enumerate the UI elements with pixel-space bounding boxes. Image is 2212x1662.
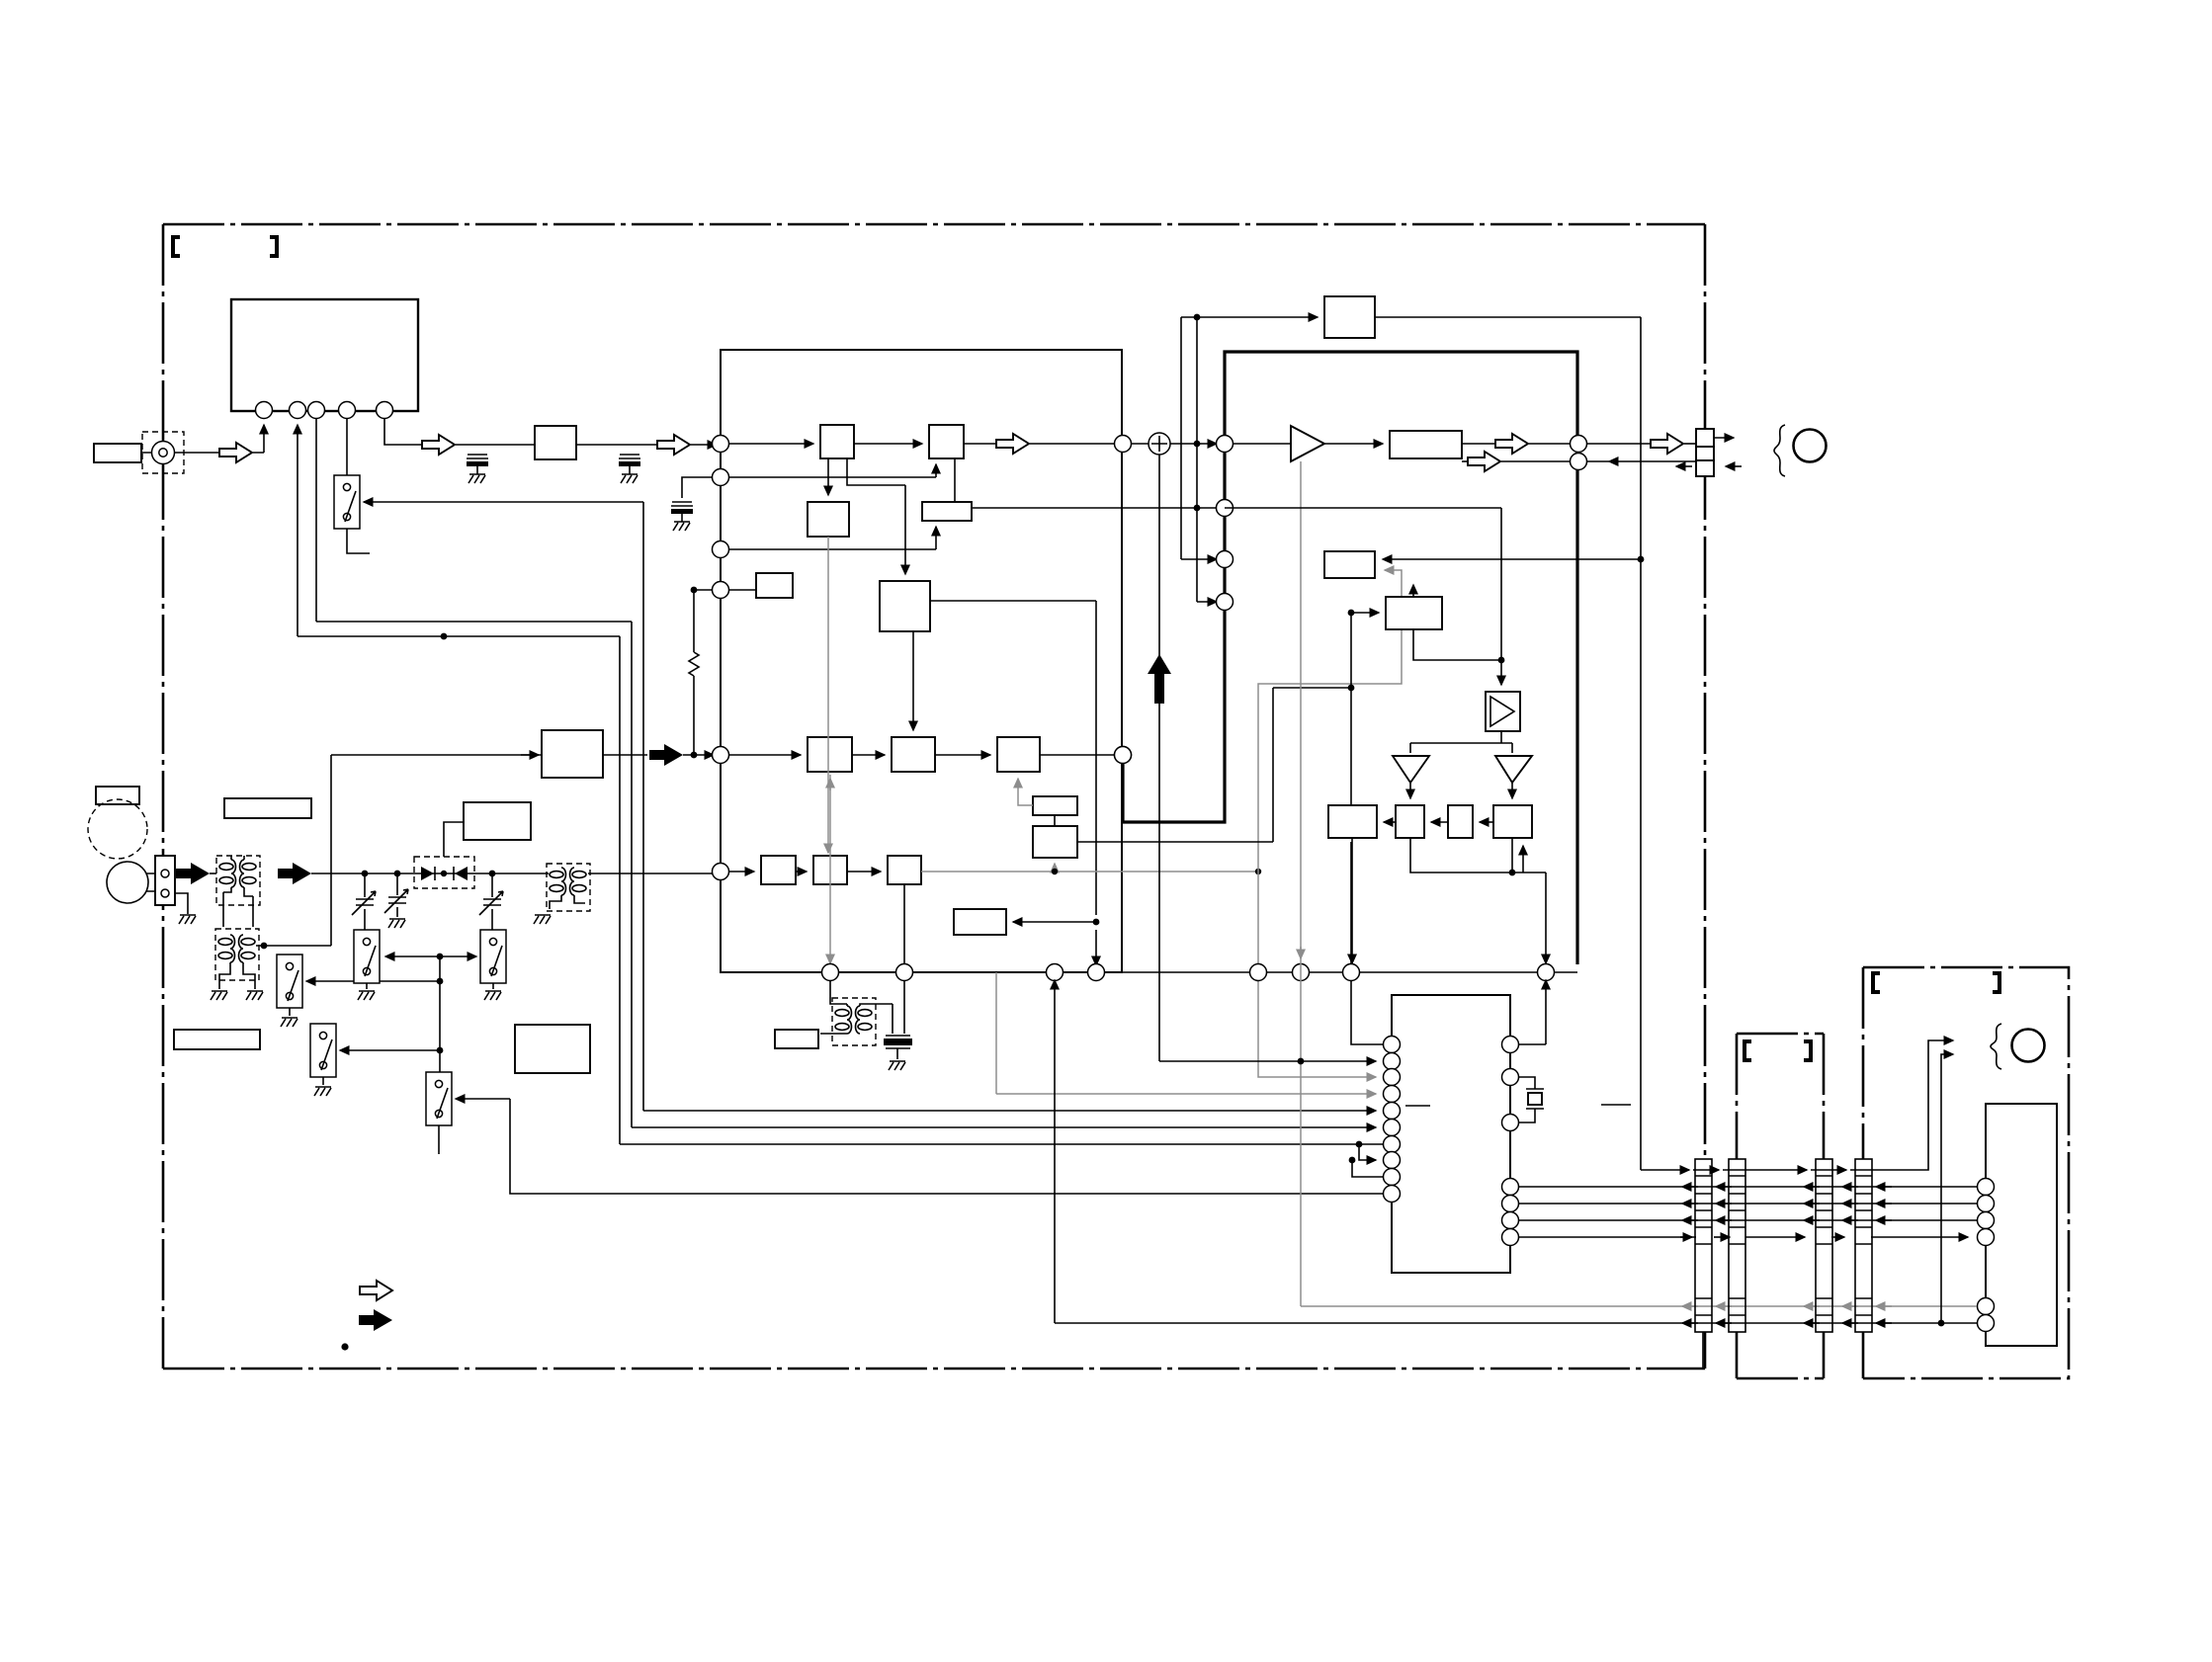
osc blocks SB1 SB2 [1033, 796, 1077, 815]
S104 lower stub [438, 1125, 440, 1154]
dashed marker circle [88, 799, 147, 859]
FM loop antenna [107, 862, 148, 903]
wire tuner pin 2 long [297, 425, 298, 636]
AM row wires [729, 754, 801, 756]
junction varicap 2 [394, 871, 401, 877]
connector arrows [1714, 437, 1734, 439]
decouple cap C201 [682, 477, 712, 498]
mode box B2 [515, 1025, 590, 1073]
filled arrow after T1 [278, 863, 311, 884]
AM row blocks BL1 BL2 BL3 [808, 737, 852, 772]
AGC resistor R101 [689, 590, 699, 755]
signal open arrow [219, 443, 252, 462]
block A1 to B1 [827, 458, 829, 495]
power amp block [1986, 1104, 2057, 1346]
diode bias wire up to AM osc box [444, 822, 464, 857]
IC pin FM RF [713, 864, 729, 880]
row3 [1519, 1203, 1977, 1205]
legend filled arrow [359, 1309, 392, 1331]
speaker circle [2012, 1030, 2045, 1062]
discriminator transformer T201 [830, 980, 847, 1006]
junction [441, 633, 448, 640]
bus pins [822, 964, 839, 981]
S104 control wire [456, 1098, 510, 1100]
wire into IC pin [691, 444, 717, 446]
power amp pins [1978, 1179, 1995, 1196]
speaker brace [1991, 1024, 2001, 1069]
switch S106 [480, 930, 506, 983]
FM RF line [311, 873, 721, 874]
internal block C (counter) [880, 581, 930, 631]
coax antenna jack [142, 432, 184, 473]
wire tuner pin 3 long [316, 419, 1376, 1127]
triangle outputs [1409, 783, 1411, 798]
IC right pin AM out [1115, 747, 1132, 764]
U301 left pins [1384, 1037, 1401, 1053]
wire summer to fb pin [1170, 443, 1217, 445]
wire [576, 444, 657, 446]
band select vertical [439, 956, 441, 1075]
chain arrows [1480, 821, 1493, 823]
pin det to B2 [729, 527, 936, 549]
line out brace [1774, 425, 1785, 476]
B1 down gray to BM2 [827, 537, 829, 853]
connector column A [1695, 1159, 1712, 1332]
antenna wires to terminal [146, 873, 155, 891]
internal block A1 [820, 425, 854, 458]
ceramic filter CF101 [535, 426, 576, 459]
wire into IC FM pin [683, 754, 714, 756]
switch S105 [354, 930, 380, 983]
S102 ground [289, 1008, 291, 1016]
label box balance [96, 787, 139, 804]
S106 ground [492, 983, 494, 989]
wire arrow to T1 [210, 873, 216, 874]
wire into S102 [306, 980, 440, 982]
switch control wire [364, 501, 643, 503]
row4 [1519, 1219, 1977, 1221]
terminal ground [175, 893, 188, 914]
junction after diode [489, 871, 496, 877]
IC right pin IF out [1115, 436, 1132, 453]
row5 out [1519, 1236, 1696, 1238]
speaker board brackets [1873, 973, 1880, 992]
main board dash-dot border [163, 224, 1705, 1369]
SB2 control to band switch [1077, 688, 1351, 842]
varicap CV1 [352, 891, 376, 915]
switch lower stub [347, 529, 370, 553]
AGC up arrow line [1158, 455, 1160, 1061]
line out connector stack [1696, 429, 1714, 447]
wire into SB3 [1013, 921, 1096, 923]
T2 grounds [211, 991, 227, 1000]
internal block A2 [929, 425, 964, 458]
board name bracket left [173, 237, 180, 256]
b1 bottom to bus pin [1351, 838, 1353, 963]
switch S102 [277, 955, 302, 1008]
wire tuner pin 5 to IF filter chain [384, 419, 422, 445]
summing node [1149, 433, 1170, 455]
varicap CV3 [479, 891, 503, 915]
FM antenna terminal block [155, 856, 175, 905]
filter out to black arrow [603, 754, 647, 756]
tuner block U101 [231, 299, 418, 411]
BL1 crystal tap gray [829, 775, 831, 963]
pin AGC wires [694, 589, 756, 591]
IF open arrow 2 [657, 435, 690, 455]
BM3 to bus pin [903, 884, 905, 963]
varicap CV2 [384, 889, 408, 913]
amp to deemphasis block [1324, 443, 1383, 445]
level triangle left [1393, 756, 1429, 783]
dash-dot border segments right of main [1737, 1034, 1824, 1378]
IC pin FM IF in [713, 436, 729, 453]
feedback vertical V1 [1181, 317, 1217, 559]
legend open arrow [360, 1281, 392, 1300]
row1 audio to speaker [1641, 1169, 1689, 1171]
IF amp input wire [256, 755, 542, 946]
line out jack circle [1794, 430, 1827, 462]
IC pin AGC [713, 582, 729, 599]
SB1 to BL3 gray [1018, 779, 1033, 805]
out row lower [1462, 460, 1468, 462]
volume blocks b1-b4 [1328, 805, 1377, 838]
AM out pin redraw [1115, 747, 1132, 764]
AM osc block [464, 802, 531, 840]
loop pins [1217, 436, 1234, 453]
junction varicap 1 [362, 871, 369, 877]
switch S103 [310, 1024, 336, 1077]
IF filled arrow [649, 744, 683, 766]
connector column B [1729, 1159, 1745, 1332]
T1 secondary to T2 [223, 892, 253, 927]
system control IC U301 [1392, 995, 1510, 1273]
C to BL2 [912, 631, 914, 730]
block RB2 [1386, 597, 1442, 629]
column bottom stubs [1703, 1332, 1863, 1377]
out pins [1571, 436, 1587, 453]
IC pin decouple [713, 469, 729, 486]
gray mute row [1301, 1305, 1977, 1307]
crystal X301 [1519, 1077, 1535, 1122]
feedback vertical V2 [1197, 317, 1217, 602]
wire to connector [1587, 443, 1651, 445]
AM tracking diodes D101 [414, 857, 474, 888]
IC pin det [713, 541, 729, 558]
wire pin to summer [1132, 443, 1149, 445]
internal block B1 [808, 502, 849, 537]
stereo pilot wire to DAC [1225, 508, 1501, 685]
det out row [973, 507, 1217, 509]
FM in filled arrow [176, 863, 210, 884]
antenna transformer T101 [216, 856, 260, 905]
wire [456, 444, 535, 446]
C out right to SB3 vertical [930, 601, 1096, 965]
row2 [1519, 1186, 1977, 1188]
IF out open arrow [422, 435, 455, 455]
connector column D [1855, 1159, 1872, 1332]
deemphasis block RB0 [1390, 431, 1462, 458]
FM IF filter block [542, 730, 603, 778]
audio amp triangle [1234, 443, 1291, 445]
FM RF row blocks BM1 BM2 BM3 [761, 856, 796, 884]
antenna plug [94, 444, 141, 462]
switch S104 [426, 1072, 452, 1125]
IC bottom bus [721, 971, 1577, 973]
board name bracket right [270, 237, 277, 256]
wire antenna to arrow [141, 452, 264, 454]
block RB1 [1383, 558, 1641, 560]
main IF/MPX IC U201 [721, 350, 1122, 972]
speaker board dash-dot box [1863, 967, 2069, 1378]
tune line from AGC vertical [1159, 1060, 1376, 1062]
feedback wires [1181, 316, 1318, 318]
amp input gray tap [1300, 461, 1302, 1306]
pin1 wire from bus [1351, 980, 1384, 1044]
b2 b4 bottom bus [1410, 838, 1546, 963]
level triangle right [1495, 756, 1532, 783]
U301 right pins [1502, 1037, 1519, 1053]
U301 internal dash [1405, 1105, 1430, 1107]
thick feedback loop path [1123, 352, 1577, 964]
A2 to B2 [954, 458, 956, 502]
connector column C [1816, 1159, 1832, 1332]
AGC block SB0 [756, 573, 793, 598]
wire to crystal upper [1519, 980, 1546, 1044]
label box near T201 [775, 1030, 818, 1048]
r7 elbows to pins 8 9 [1356, 1141, 1363, 1148]
FM RF row wires [729, 871, 754, 873]
IC pin AM in [713, 747, 729, 764]
AM transformer T103 [547, 864, 590, 911]
RB2 bottom join [1413, 629, 1501, 660]
tuner pins [256, 402, 273, 419]
row wires 449 [729, 443, 813, 445]
arrow into filter [521, 754, 539, 756]
out row upper [1462, 443, 1495, 445]
label box top [224, 798, 311, 818]
inter-switch wire [385, 956, 440, 957]
wire into tuner pin 1 [263, 425, 265, 453]
bypass cap C102 [619, 455, 640, 483]
black sense row [1055, 1322, 1977, 1324]
bypass cap C101 [467, 455, 488, 483]
gray data line [996, 972, 1376, 1094]
wire tuner pin 4 to band switch [346, 419, 348, 504]
DAC split wires [1410, 731, 1512, 753]
legend dot [341, 1343, 348, 1350]
gray net from BM3 [921, 871, 1258, 873]
transformer T102 [215, 929, 259, 980]
band switch S101 [334, 475, 360, 529]
RB2 input [1351, 612, 1379, 614]
S103 ground [322, 1077, 324, 1085]
junction T2 right [261, 943, 268, 950]
top feedback box TB [1324, 296, 1375, 338]
internal block B2 [922, 502, 972, 521]
CD section brackets [1744, 1041, 1751, 1060]
SB3 box [954, 909, 1006, 935]
label box left lower [174, 1030, 260, 1049]
wire into S103 [340, 1049, 437, 1051]
S105 ground [366, 983, 368, 989]
DAC box with triangle [1486, 692, 1520, 731]
external label dash [1601, 1104, 1631, 1106]
det cap C202 [903, 980, 905, 1034]
